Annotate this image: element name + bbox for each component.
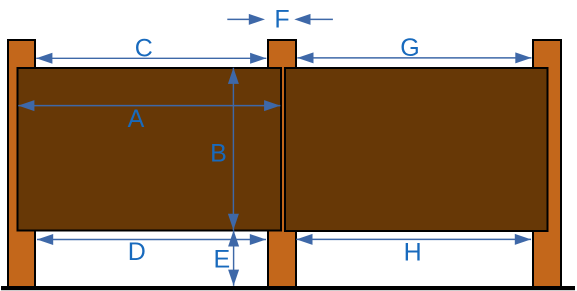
dimension G arrow: [297, 52, 531, 63]
svg-text:H: H: [404, 239, 422, 267]
panel left: [18, 68, 282, 231]
dimension C arrow: [36, 53, 266, 64]
dimension A arrow: [18, 100, 280, 111]
ground: [1, 286, 575, 290]
svg-text:B: B: [210, 140, 227, 168]
dimension H arrow: [296, 234, 531, 245]
svg-text:F: F: [274, 6, 289, 34]
dimension E arrow: [228, 230, 239, 285]
dimension D arrow: [37, 234, 266, 245]
dimension B arrow: [228, 68, 239, 230]
svg-text:E: E: [213, 246, 230, 274]
panel right: [285, 68, 548, 231]
svg-text:D: D: [128, 238, 146, 266]
svg-text:A: A: [128, 105, 145, 133]
svg-text:C: C: [135, 34, 153, 62]
svg-text:G: G: [400, 34, 419, 62]
post left: [8, 40, 35, 287]
post middle: [268, 40, 296, 287]
dimension F arrows: [227, 14, 333, 25]
post right: [533, 40, 561, 287]
